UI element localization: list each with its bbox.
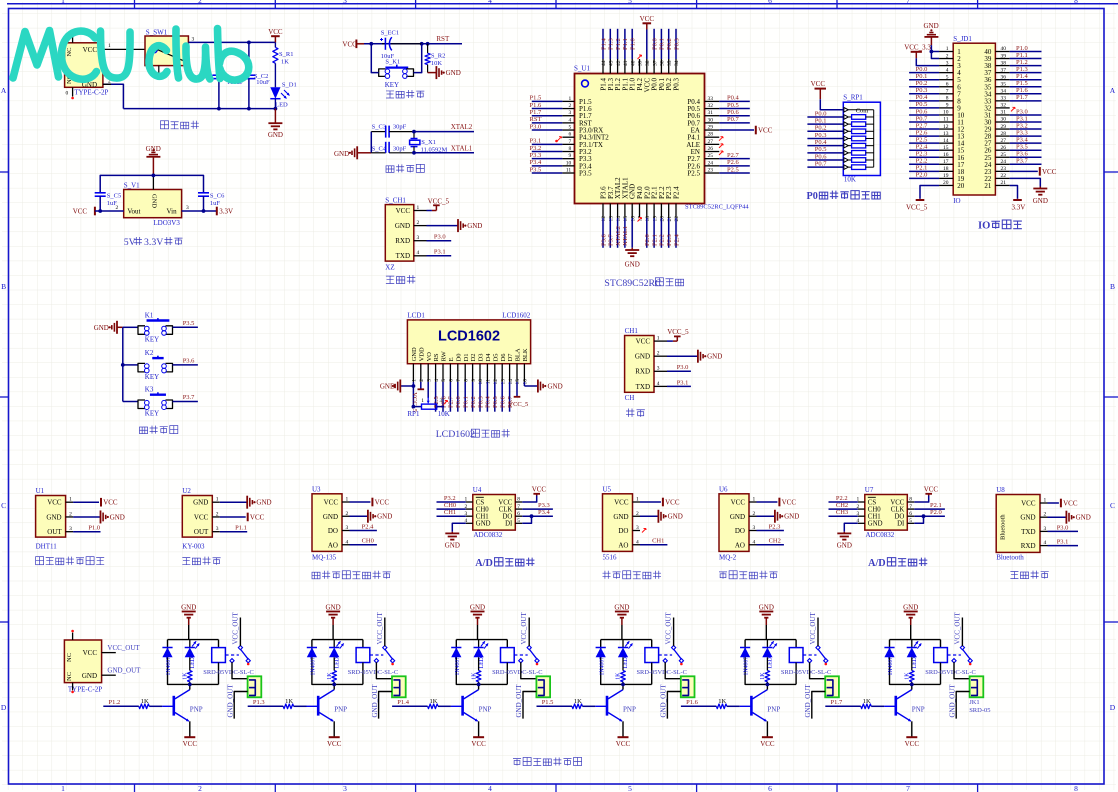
- svg-text:GND_OUT: GND_OUT: [804, 684, 812, 718]
- wire P0.4 pullup: [807, 139, 843, 146]
- svg-text:B: B: [1110, 282, 1115, 291]
- svg-text:LCD1602: LCD1602: [436, 429, 475, 440]
- junction: [420, 42, 424, 46]
- svg-text:17: 17: [943, 159, 949, 165]
- pin NC bottom stub P2: [72, 683, 74, 691]
- pin 1 U4 left P3.2: [437, 495, 473, 503]
- svg-text:39: 39: [638, 60, 644, 66]
- pin 23 JD1 right: [995, 166, 1009, 172]
- svg-text:VCC_OUT: VCC_OUT: [231, 611, 239, 644]
- svg-text:GND: GND: [613, 513, 628, 521]
- switch S_SW1: [145, 28, 195, 74]
- svg-text:U5: U5: [603, 485, 612, 493]
- svg-text:21: 21: [667, 216, 673, 222]
- wire LCD P0.7: [507, 382, 514, 412]
- svg-text:32: 32: [1001, 103, 1007, 109]
- wire relay frame: [890, 640, 941, 685]
- svg-text:CH1: CH1: [868, 514, 881, 521]
- MCUclub logo: [13, 29, 249, 81]
- pin 4 U4 GND: [445, 518, 473, 550]
- pin 24 P2.6: [687, 159, 749, 170]
- pin 6 U4 DO P3.4: [515, 509, 553, 517]
- wire GND pin to bottom rail: [103, 84, 124, 108]
- wire VCC_OUT relay: [520, 611, 529, 646]
- title download port: [386, 275, 415, 283]
- pin NC bottom stub: [72, 87, 74, 96]
- svg-text:30: 30: [708, 117, 714, 123]
- svg-text:1K: 1K: [285, 698, 293, 705]
- svg-text:BLA: BLA: [515, 348, 522, 361]
- svg-text:U6: U6: [719, 485, 728, 493]
- pin 7 P3.1/TX: [530, 138, 603, 149]
- svg-text:10K: 10K: [844, 175, 856, 183]
- svg-text:GND: GND: [924, 22, 939, 30]
- svg-text:VCC_OUT: VCC_OUT: [520, 611, 528, 644]
- title serial port: [626, 409, 645, 417]
- svg-text:19: 19: [943, 173, 949, 179]
- ground GND keys: [94, 321, 123, 334]
- svg-text:P1.5: P1.5: [542, 699, 554, 706]
- svg-text:S_X1: S_X1: [421, 139, 436, 146]
- wire P0.5 pullup: [807, 146, 843, 153]
- svg-text:XTAL1: XTAL1: [622, 226, 629, 246]
- pin 5 JD1 left: [909, 73, 953, 80]
- wire LCD P2.6: [440, 382, 447, 412]
- diode 1N4007: [162, 648, 172, 676]
- svg-text:SRD-05VDC-SL-C: SRD-05VDC-SL-C: [492, 669, 542, 676]
- pin LCD GND left: [380, 380, 415, 407]
- ground GND relay P1.4: [470, 604, 485, 640]
- svg-text:LCD1: LCD1: [407, 312, 425, 320]
- svg-text:P1.4: P1.4: [600, 38, 607, 50]
- svg-text:3.3V: 3.3V: [144, 237, 163, 248]
- svg-text:P0.1: P0.1: [916, 73, 928, 80]
- ground GND regulator: [146, 145, 161, 176]
- svg-text:TXD: TXD: [636, 383, 650, 391]
- wire GND_OUT relay: [804, 684, 825, 719]
- svg-text:VCC: VCC: [1063, 499, 1078, 507]
- svg-text:20: 20: [957, 182, 965, 190]
- svg-text:8: 8: [568, 146, 571, 152]
- svg-text:CH2: CH2: [769, 538, 781, 545]
- svg-text:P1.2: P1.2: [1016, 59, 1028, 66]
- svg-text:3.3V: 3.3V: [219, 208, 233, 216]
- pin 3 P1.7: [530, 109, 593, 120]
- svg-text:12: 12: [943, 124, 949, 130]
- capacitor S_C5 1uF: [95, 192, 122, 211]
- svg-text:S_D1: S_D1: [282, 82, 297, 89]
- wire LCD P0.4: [485, 382, 492, 412]
- pin 12 LCD D5: [493, 364, 499, 385]
- pin 39 JD1 right: [995, 52, 1041, 59]
- svg-text:VCC: VCC: [1042, 168, 1057, 176]
- pin 10 P3.4: [530, 159, 593, 170]
- relay switch contacts: [225, 645, 250, 665]
- svg-text:GND: GND: [445, 542, 460, 550]
- junction: [247, 107, 251, 111]
- svg-text:P3.4: P3.4: [1016, 136, 1028, 143]
- junction: [621, 683, 625, 687]
- title DHT11: [36, 557, 105, 565]
- pin GND_OUT wire: [102, 667, 142, 676]
- svg-text:P3.7: P3.7: [608, 234, 615, 246]
- svg-text:NC: NC: [66, 47, 73, 56]
- svg-text:P1.3: P1.3: [253, 699, 265, 706]
- pin 2 U3 GND: [342, 510, 392, 523]
- svg-text:P0.5: P0.5: [916, 101, 928, 108]
- svg-text:D5: D5: [492, 353, 499, 361]
- svg-text:IO: IO: [978, 221, 990, 232]
- wire input P1.7: [825, 699, 861, 706]
- svg-text:37: 37: [1001, 67, 1007, 73]
- svg-text:P2.7: P2.7: [916, 122, 928, 129]
- svg-text:10: 10: [943, 110, 949, 116]
- pin 7 U7 CLK P2.1: [907, 502, 945, 510]
- svg-text:LCD1602: LCD1602: [502, 312, 531, 320]
- svg-text:CH: CH: [625, 394, 635, 402]
- pin TXD serial P3.1: [654, 379, 691, 386]
- svg-text:38: 38: [1001, 60, 1007, 66]
- svg-text:33: 33: [1001, 96, 1007, 102]
- junction: [412, 130, 416, 134]
- wire VCC_OUT relay: [665, 611, 674, 646]
- svg-text:P3.1: P3.1: [1016, 115, 1028, 122]
- svg-text:DO: DO: [502, 514, 512, 521]
- module U5 5516 body: [603, 485, 640, 561]
- ground GND chip: [625, 248, 640, 269]
- ground GND JD1 right: [1010, 178, 1048, 205]
- svg-text:44: 44: [601, 60, 607, 66]
- svg-text:RW: RW: [441, 350, 448, 361]
- wire contact to terminal: [954, 662, 970, 679]
- svg-text:S_RP1: S_RP1: [843, 94, 863, 102]
- svg-text:2: 2: [946, 53, 949, 59]
- junction: [217, 41, 221, 45]
- svg-text:1uF: 1uF: [107, 200, 118, 207]
- svg-text:1: 1: [412, 379, 418, 382]
- pin 16 LCD BLK: [523, 364, 529, 385]
- svg-text:XTAL2: XTAL2: [451, 123, 473, 131]
- svg-text:42: 42: [616, 60, 622, 66]
- svg-text:P0.7: P0.7: [815, 160, 827, 167]
- pin 1 U7 left P2.2: [829, 495, 865, 503]
- pin 34 P0.3 top: [673, 29, 681, 91]
- svg-text:P2.7: P2.7: [448, 396, 455, 408]
- svg-text:3: 3: [186, 205, 189, 211]
- svg-text:P0.1: P0.1: [463, 396, 470, 408]
- pin LCD VDD VCC_5: [411, 382, 424, 412]
- svg-text:16: 16: [630, 216, 636, 222]
- svg-text:GND: GND: [181, 604, 196, 612]
- svg-text:VCC_5: VCC_5: [508, 401, 528, 408]
- pin 3 U4 left CH1: [437, 509, 473, 517]
- svg-text:P1.6: P1.6: [1016, 87, 1028, 94]
- pin 8 LCD D1: [463, 364, 469, 382]
- svg-text:GND: GND: [446, 69, 461, 77]
- svg-text:U3: U3: [312, 485, 321, 493]
- svg-text:XTAL1: XTAL1: [451, 144, 473, 152]
- wire LCD P0.1: [463, 382, 470, 412]
- power port VCC JD1 right: [1010, 167, 1057, 176]
- transistor PNP P1.5: [595, 684, 636, 737]
- svg-text:1N4007: 1N4007: [311, 657, 317, 676]
- svg-text:37: 37: [652, 60, 658, 66]
- pin 4 U7 GND: [837, 518, 865, 550]
- svg-text:VCC: VCC: [342, 40, 357, 48]
- svg-text:VCC: VCC: [183, 740, 198, 748]
- svg-text:TYPE-C-2P: TYPE-C-2P: [74, 89, 108, 97]
- svg-text:U8: U8: [996, 486, 1005, 494]
- svg-text:31: 31: [708, 110, 714, 116]
- pin 3 U1 OUT: [66, 525, 101, 532]
- pin 12 P3.6 bottom: [600, 186, 608, 248]
- svg-text:AO: AO: [328, 541, 338, 549]
- pin 5 P3.0/RX: [530, 123, 604, 134]
- svg-text:5: 5: [628, 0, 632, 5]
- svg-text:LED: LED: [275, 102, 288, 109]
- svg-text:VCC: VCC: [83, 46, 98, 54]
- wire LCD P0.6: [500, 382, 507, 412]
- svg-text:P0.3: P0.3: [673, 38, 680, 50]
- svg-text:5V: 5V: [124, 237, 136, 248]
- wire contact to terminal: [376, 662, 392, 679]
- junction: [98, 209, 102, 213]
- pin 41 P1.1 top: [621, 29, 629, 91]
- svg-text:P1.4: P1.4: [1016, 73, 1028, 80]
- svg-text:P0.7: P0.7: [916, 115, 928, 122]
- svg-text:7: 7: [946, 89, 949, 95]
- pin 6 U7 DO P2.0: [907, 509, 945, 517]
- svg-text:4: 4: [488, 0, 492, 5]
- wire relay frame: [312, 640, 363, 685]
- transistor PNP P1.6: [740, 684, 781, 737]
- power port VCC pullup: [811, 80, 844, 110]
- wire LCD P0.2: [470, 382, 477, 412]
- pin 19 P2.1 bottom: [651, 186, 659, 248]
- wire input P1.3: [248, 699, 284, 706]
- pin 9 P3.3: [530, 152, 593, 163]
- terminal block JK: [825, 676, 839, 697]
- svg-text:P0.1: P0.1: [659, 38, 666, 50]
- transistor PNP P1.3: [307, 684, 348, 737]
- svg-text:RXD: RXD: [1021, 542, 1036, 550]
- svg-text:TXD: TXD: [396, 252, 410, 260]
- svg-text:7: 7: [909, 504, 912, 510]
- svg-text:AO: AO: [618, 541, 628, 549]
- junction: [412, 151, 416, 155]
- module U8 Bluetooth body: [996, 486, 1046, 562]
- svg-text:SRD-05: SRD-05: [969, 707, 990, 714]
- svg-text:7: 7: [517, 504, 520, 510]
- svg-text:3: 3: [946, 60, 949, 66]
- svg-text:1K: 1K: [616, 672, 622, 680]
- pin 22 P2.4 bottom: [673, 186, 681, 248]
- title MQ-135: [312, 571, 391, 579]
- svg-text:NC: NC: [66, 653, 73, 662]
- pin 2 U8 GND: [1040, 511, 1091, 524]
- svg-text:P2.5: P2.5: [687, 170, 700, 178]
- svg-text:1K: 1K: [905, 672, 911, 680]
- svg-text:VCC: VCC: [1021, 500, 1036, 508]
- svg-text:SRD-05VDC-SL-C: SRD-05VDC-SL-C: [637, 669, 687, 676]
- key K1: [123, 311, 198, 343]
- svg-text:P1.1: P1.1: [1016, 52, 1028, 59]
- svg-text:CH1: CH1: [625, 327, 639, 335]
- svg-text:P0.5: P0.5: [492, 396, 499, 408]
- svg-text:LED: LED: [768, 657, 774, 668]
- pin 3 U3 DO: [342, 523, 377, 530]
- diode 1N4007: [740, 648, 750, 676]
- svg-text:Vin: Vin: [167, 207, 178, 215]
- pin 40 JD1 right: [995, 45, 1041, 52]
- svg-text:CLK: CLK: [499, 506, 513, 513]
- svg-text:SRD-05VDC-SL-C: SRD-05VDC-SL-C: [781, 669, 831, 676]
- pin 30 JD1 right: [995, 115, 1041, 122]
- svg-text:1K: 1K: [574, 698, 582, 705]
- svg-text:5: 5: [946, 74, 949, 80]
- svg-text:8: 8: [946, 96, 949, 102]
- resistor 1K base P1.5: [572, 698, 595, 709]
- svg-text:OUT: OUT: [194, 528, 209, 536]
- wire P0.7 pullup: [807, 160, 843, 167]
- pin 44 P1.4 top: [600, 29, 608, 91]
- svg-text:P1.0: P1.0: [88, 525, 100, 532]
- ground GND relay P1.6: [759, 604, 774, 640]
- pin 11 P3.5: [530, 166, 593, 177]
- pin 33 P0.4: [687, 95, 749, 106]
- svg-text:12: 12: [601, 216, 607, 222]
- svg-text:1K: 1K: [430, 698, 438, 705]
- svg-text:VCC: VCC: [760, 740, 775, 748]
- svg-text:P0.0: P0.0: [815, 110, 827, 117]
- pin 38 JD1 right: [995, 59, 1041, 66]
- svg-text:B: B: [1, 282, 6, 291]
- wire key left leg: [371, 44, 378, 73]
- svg-text:VCC: VCC: [47, 499, 62, 507]
- svg-text:1K: 1K: [327, 672, 333, 680]
- svg-text:P3.1: P3.1: [530, 138, 542, 145]
- svg-text:PNP: PNP: [479, 705, 492, 713]
- svg-text:KEY: KEY: [145, 410, 159, 418]
- svg-text:VCC: VCC: [811, 80, 826, 88]
- svg-text:GND: GND: [837, 542, 852, 550]
- svg-text:RS: RS: [433, 353, 440, 361]
- svg-text:P0.4: P0.4: [815, 139, 827, 146]
- junction: [121, 363, 125, 367]
- svg-text:11: 11: [943, 117, 949, 123]
- svg-text:P1.7: P1.7: [831, 699, 843, 706]
- svg-text:STC89C52RC_LQFP44: STC89C52RC_LQFP44: [685, 203, 749, 210]
- power port VCC_3.3: [904, 43, 939, 65]
- svg-text:6: 6: [517, 511, 520, 517]
- power port VCC out: [73, 207, 124, 216]
- svg-text:VCC: VCC: [758, 126, 773, 134]
- transistor PNP P1.4: [451, 684, 492, 737]
- svg-text:11: 11: [566, 168, 572, 174]
- svg-text:29: 29: [708, 125, 714, 131]
- LED relay: [618, 640, 633, 669]
- pin 9 JD1 left: [909, 101, 953, 108]
- pin 42 P1.2 top: [614, 29, 622, 91]
- svg-text:1: 1: [108, 43, 111, 49]
- capacitor S_C3 30pF: [371, 123, 414, 137]
- svg-text:P3.7: P3.7: [183, 394, 195, 401]
- svg-text:VCC: VCC: [83, 649, 98, 657]
- pin 27 ALE: [686, 139, 723, 149]
- title relay control circuit: [513, 757, 582, 765]
- pin 7 U4 CLK P3.3: [515, 502, 553, 510]
- svg-text:P3.6: P3.6: [600, 234, 607, 246]
- svg-text:GND: GND: [1033, 197, 1048, 205]
- svg-text:P3.0: P3.0: [1057, 524, 1069, 531]
- module U3 MQ-135 body: [312, 485, 349, 561]
- wire gnd rail: [100, 175, 203, 192]
- pin 3 JD1 left: [939, 60, 953, 66]
- svg-text:1K: 1K: [471, 672, 477, 680]
- key S_K1: [379, 58, 414, 89]
- svg-text:6: 6: [909, 511, 912, 517]
- power port 3.3V: [217, 207, 233, 216]
- svg-text:P0.5: P0.5: [815, 146, 827, 153]
- pin 15 JD1 left: [909, 144, 953, 151]
- svg-text:S_CH1: S_CH1: [385, 196, 406, 204]
- pin 6 LCD E: [449, 364, 455, 382]
- svg-text:10uF: 10uF: [256, 79, 270, 86]
- svg-text:XTAL2: XTAL2: [615, 226, 622, 246]
- power port VCC relay: [760, 737, 775, 748]
- pin 10 JD1 left: [909, 108, 953, 115]
- svg-text:VCC_5: VCC_5: [906, 203, 928, 211]
- svg-text:24: 24: [1001, 159, 1007, 165]
- pin 15 LCD BLA: [515, 364, 521, 385]
- svg-text:CH1: CH1: [476, 514, 489, 521]
- svg-text:1K: 1K: [183, 672, 189, 680]
- svg-text:D0: D0: [455, 353, 462, 361]
- svg-text:2: 2: [198, 784, 202, 792]
- svg-text:P2.6: P2.6: [727, 159, 739, 166]
- svg-text:MQ-2: MQ-2: [719, 553, 737, 561]
- svg-text:VCC: VCC: [250, 513, 265, 521]
- svg-text:VCC: VCC: [396, 207, 411, 215]
- svg-text:STC89C52RC: STC89C52RC: [604, 278, 661, 289]
- svg-text:P3.2: P3.2: [530, 145, 542, 152]
- svg-text:OUT: OUT: [47, 528, 62, 536]
- svg-text:DI: DI: [897, 521, 905, 528]
- pin 24 JD1 right: [995, 158, 1041, 165]
- pin 14 LCD D7: [508, 364, 514, 385]
- svg-text:34: 34: [674, 60, 680, 66]
- power port VCC relay: [183, 737, 198, 748]
- svg-text:Bluetooth: Bluetooth: [996, 554, 1024, 562]
- svg-text:8: 8: [463, 379, 469, 382]
- svg-text:D2: D2: [470, 353, 477, 361]
- relay switch contacts: [947, 645, 972, 665]
- title 5516: [603, 571, 662, 579]
- relay coil SRD-05VDC-SL-C: [781, 640, 831, 685]
- pin 17 P4.0 bottom: [636, 186, 644, 222]
- wire LCD P0.0: [455, 382, 462, 412]
- svg-text:CH3: CH3: [836, 509, 848, 516]
- pin 19 JD1 left: [909, 172, 953, 179]
- svg-text:DO: DO: [618, 527, 628, 535]
- pin 31 P0.6: [687, 109, 749, 120]
- pin 29 JD1 right: [995, 122, 1041, 129]
- pin 7 JD1 left: [909, 87, 953, 94]
- pin 15 XTAL1 bottom: [621, 177, 629, 248]
- svg-text:P0.6: P0.6: [916, 108, 928, 115]
- pin LCD BLK GND right: [524, 380, 562, 393]
- svg-text:GND: GND: [548, 382, 563, 390]
